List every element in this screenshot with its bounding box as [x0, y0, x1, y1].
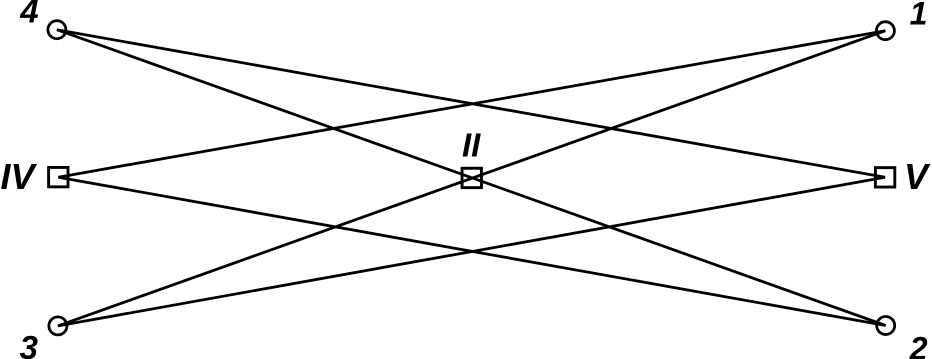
node circle 4 — [48, 21, 66, 39]
node square IV — [49, 167, 68, 186]
node square V — [875, 168, 894, 187]
svg-text:V: V — [904, 156, 931, 197]
svg-text:II: II — [462, 127, 481, 164]
svg-text:1: 1 — [910, 0, 928, 32]
wire 4-V — [57, 30, 885, 178]
svg-text:3: 3 — [20, 329, 38, 359]
svg-text:4: 4 — [19, 0, 38, 29]
wire 3-1 (through II) — [58, 31, 886, 326]
node square II — [462, 168, 481, 187]
node circle 1 — [876, 22, 894, 40]
wire 3-V — [58, 177, 885, 326]
node circle 3 — [49, 317, 67, 335]
wire 4-2 (through II) — [57, 30, 886, 326]
wire IV-2 — [58, 177, 885, 325]
wire IV-1 — [58, 31, 885, 178]
svg-text:2: 2 — [909, 331, 928, 359]
svg-text:IV: IV — [1, 156, 38, 197]
node circle 2 — [877, 317, 895, 335]
